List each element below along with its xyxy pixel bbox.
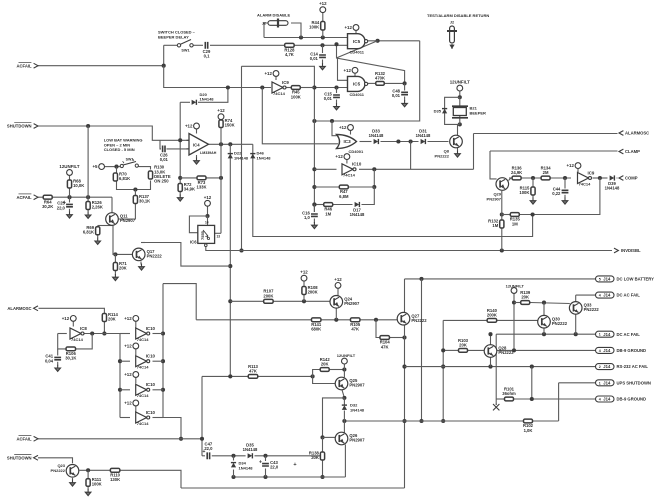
wire bank supply2 — [135, 349, 137, 355]
wire mid row 320 — [196, 319, 311, 321]
junction D33 node — [396, 139, 400, 143]
transistor Q11 — [106, 213, 136, 226]
wire Q30 collector — [543, 303, 545, 316]
junction J2 drop — [299, 35, 303, 39]
connector J14 pin4 DB-9 GROUND — [596, 347, 647, 353]
resistor R72 — [178, 182, 195, 192]
wire R134 to IC9b — [550, 177, 571, 179]
junction R44 bottom — [321, 35, 325, 39]
junction IC9 in branch — [260, 85, 264, 89]
wire IC10a supply — [346, 160, 348, 164]
wire Q11 emitter — [111, 197, 113, 213]
wire D32 column — [343, 398, 345, 405]
svg-text:CLOSED - 5 MIN: CLOSED - 5 MIN — [104, 147, 135, 152]
resistor R105 — [350, 318, 361, 332]
wire R114 column — [103, 322, 105, 334]
diode D31 — [416, 128, 431, 144]
capacitor C48 — [392, 89, 408, 99]
svg-text:36ohm: 36ohm — [502, 391, 516, 396]
svg-text:SW1: SW1 — [126, 158, 134, 162]
junction R101/x531 — [530, 397, 534, 401]
wire IC4 supply — [196, 129, 198, 134]
svg-text:74C14: 74C14 — [343, 173, 356, 178]
junction x421 bottom — [419, 419, 423, 423]
svg-text:SW1: SW1 — [181, 49, 189, 53]
svg-text:2M: 2M — [543, 170, 549, 175]
capacitor C44 — [552, 187, 568, 197]
wire row3 J14 — [496, 333, 595, 335]
resistor R104 — [380, 336, 391, 350]
svg-text:1M: 1M — [325, 211, 331, 216]
svg-text:74C14: 74C14 — [273, 91, 286, 96]
junction shutdown — [86, 124, 90, 128]
wire R68 column — [69, 176, 71, 197]
power +12 IC9a — [264, 71, 278, 77]
diode D33 — [369, 128, 384, 144]
svg-text:6,81K: 6,81K — [119, 176, 130, 181]
connector J14 pin4 DC AC FAIL — [596, 292, 641, 298]
wire R137 column — [134, 190, 136, 196]
wire bank supply1 — [135, 321, 137, 327]
junction IC6 vcc — [205, 214, 209, 218]
capacitor C25 — [57, 200, 73, 210]
wire IC4 fb column — [179, 102, 181, 183]
junction R113/ACFAIL — [200, 437, 204, 441]
wire R107 to Q24 base — [273, 300, 330, 302]
svg-text:1,0K: 1,0K — [524, 428, 533, 433]
resistor R128 — [284, 43, 295, 57]
wire bank left rail — [119, 334, 121, 418]
junction route/IC3 drop — [330, 119, 334, 123]
wire IC9b out to D39 — [593, 177, 608, 179]
junction rail row2 — [118, 359, 122, 363]
wire C25 to ground — [69, 209, 71, 212]
svg-text:1: 1 — [599, 333, 601, 337]
port CLAMP — [619, 149, 623, 154]
wire R104 branch — [376, 320, 380, 338]
wire D20 left — [180, 101, 190, 103]
junction R111 top — [86, 468, 90, 472]
wire C25 column — [69, 197, 71, 202]
wire Q29 collector — [501, 191, 503, 220]
junction C15 tap — [334, 85, 338, 89]
capacitor C16 — [302, 210, 318, 220]
power 12UNFILT Q25 — [342, 358, 348, 364]
svg-text:ALARM DISABLE: ALARM DISABLE — [257, 13, 290, 18]
svg-text:PN2907: PN2907 — [349, 438, 365, 443]
svg-text:12UNFILT: 12UNFILT — [337, 353, 356, 358]
inverter IC8 — [70, 326, 87, 342]
wire C44 to ground — [564, 195, 566, 198]
svg-text:22,0: 22,0 — [204, 446, 213, 451]
power 12UNFILT Q30 — [511, 288, 517, 294]
wire R132b column — [501, 228, 503, 251]
junction C43 top — [263, 454, 267, 458]
resistor R102 — [523, 419, 534, 433]
junction R103 left — [441, 348, 445, 352]
junction rail row3 — [118, 388, 122, 392]
junction C44 top — [563, 176, 567, 180]
wire R101 to J14 row7 — [514, 398, 596, 400]
wire D34 column — [233, 456, 235, 461]
svg-text:+12: +12 — [124, 344, 132, 349]
svg-text:ACFAIL: ACFAIL — [16, 63, 32, 68]
wire bank in4 — [120, 417, 130, 419]
inverter IC10b4 — [136, 410, 156, 426]
svg-text:1,0: 1,0 — [304, 215, 310, 220]
diode D46 — [250, 154, 255, 159]
wire bank right rail — [162, 284, 164, 418]
wire ALARMOSC row right — [474, 133, 618, 135]
junction Q26 base — [320, 435, 324, 439]
port ACFAIL bottom — [16, 436, 38, 442]
wire R138 to bottom row — [322, 461, 324, 478]
wire alarm-disable row — [264, 37, 348, 39]
svg-text:DB-9 GROUND: DB-9 GROUND — [617, 348, 647, 353]
wire IC3 supply — [350, 130, 352, 134]
svg-text:IC8: IC8 — [80, 326, 87, 331]
wire bank top row — [163, 284, 196, 320]
ground R69 — [95, 238, 101, 245]
svg-text:100K: 100K — [519, 190, 529, 195]
junction R137 top — [133, 187, 137, 191]
wire D32 to row — [343, 411, 345, 422]
wire latch diag A — [338, 41, 378, 81]
svg-text:+12: +12 — [264, 71, 272, 76]
diode D17 — [350, 202, 365, 217]
wire row5 J14 — [405, 366, 596, 368]
svg-text:PN2222: PN2222 — [435, 153, 450, 158]
svg-text:J14: J14 — [603, 277, 611, 282]
wire R73 row — [180, 177, 221, 179]
wire IC6 top pin — [207, 216, 209, 225]
jumper J2 alarm disable — [262, 19, 288, 28]
svg-text:+12: +12 — [319, 1, 327, 6]
svg-text:1N4148: 1N4148 — [239, 465, 254, 470]
wire R70/R130 bottoms — [117, 181, 151, 190]
wire C29 to R128 — [210, 44, 285, 46]
wire bank out2 — [153, 360, 164, 362]
wire R104 to emitter — [390, 337, 405, 339]
svg-text:ALARMOSC: ALARMOSC — [625, 131, 649, 136]
power +12 IC9b — [566, 163, 580, 169]
wire bank supply3 — [135, 378, 137, 384]
wire C26 to IC4 — [167, 148, 190, 150]
resistor R107 — [263, 289, 274, 303]
svg-text:DB-9 GROUND: DB-9 GROUND — [617, 397, 647, 402]
wire J2 test pin — [451, 44, 453, 49]
junction Q33 emitter — [574, 332, 578, 336]
svg-text:74C14: 74C14 — [137, 337, 150, 342]
junction Q28 emitter — [488, 365, 492, 369]
svg-text:1N4148: 1N4148 — [416, 133, 431, 138]
wire gate2 in2 row — [314, 87, 347, 89]
svg-text:CLAMP: CLAMP — [625, 149, 640, 154]
resistor R126 — [86, 200, 103, 210]
timer IC6 — [190, 221, 220, 247]
ground Q17 — [139, 264, 145, 271]
wire D20 right — [198, 88, 228, 103]
wire C44 column — [564, 178, 566, 189]
resistor R139 — [520, 290, 531, 305]
junction IC10a out — [372, 167, 376, 171]
transistor Q25 — [335, 377, 365, 390]
capacitor C14 — [310, 51, 326, 61]
svg-text:150K: 150K — [225, 123, 235, 128]
power +12 Q24 — [334, 277, 342, 288]
power 12UNFILT beeper — [450, 80, 470, 91]
diode D39 — [605, 175, 620, 190]
wire IC9b supply — [577, 169, 579, 173]
junction IC9 out row — [312, 85, 316, 89]
wire SHUTDOWN row — [38, 126, 189, 140]
capacitor C47 — [203, 442, 214, 460]
svg-text:ACFAIL: ACFAIL — [16, 195, 32, 200]
power +12 IC3 — [339, 125, 353, 131]
svg-text:680K: 680K — [311, 327, 321, 332]
junction R46 left — [312, 202, 316, 206]
wire R107 row — [230, 300, 263, 302]
junction fb/in1 — [178, 138, 182, 142]
svg-text:0,01: 0,01 — [324, 96, 333, 101]
svg-text:1M: 1M — [492, 223, 498, 228]
wire R71 column — [114, 254, 116, 262]
wire Q24 collector — [335, 308, 337, 320]
svg-text:100K: 100K — [309, 25, 319, 30]
resistor R137 — [133, 194, 150, 204]
svg-text:20K: 20K — [459, 342, 467, 347]
transistor Q17 — [132, 248, 162, 261]
svg-text:74C14: 74C14 — [137, 393, 150, 398]
svg-text:12UNFILT: 12UNFILT — [59, 164, 79, 169]
wire R128 to NAND input — [294, 44, 347, 46]
connector J14 pin5 DC LOW BATTERY — [596, 276, 655, 282]
wire x421 column — [421, 279, 423, 421]
svg-text:+12: +12 — [566, 163, 574, 168]
ground Q8 — [455, 151, 461, 158]
connector J14 pin1 DC AC FAIL — [596, 331, 641, 337]
junction D32 bottom — [342, 419, 346, 423]
junction R108 bottom — [302, 299, 306, 303]
diode D35 — [442, 109, 447, 114]
resistor R70 — [113, 171, 130, 181]
wire IC10a out row — [359, 168, 474, 170]
port INVDISBL — [614, 248, 619, 253]
wire C26 branch — [160, 140, 161, 149]
wire Q17 emitter — [140, 262, 142, 265]
svg-text:PN2907: PN2907 — [120, 218, 136, 223]
wire C43 column — [265, 456, 267, 461]
svg-text:IC10: IC10 — [146, 382, 156, 387]
svg-text:J14: J14 — [603, 332, 611, 337]
wire bank in2 — [120, 360, 130, 362]
wire C16 column — [313, 205, 315, 213]
capacitor C15 — [324, 91, 340, 101]
wire 12UNFILT3 drop — [513, 294, 515, 351]
wire Q23 emitter — [72, 478, 74, 480]
junction gate1 in2 — [334, 42, 338, 46]
svg-text:IC6: IC6 — [190, 240, 197, 245]
svg-text:1N4148: 1N4148 — [234, 155, 249, 160]
wire bank supply4 — [135, 406, 137, 412]
capacitor C26 — [160, 146, 169, 163]
svg-text:IC10: IC10 — [352, 162, 362, 167]
junction x443/R102 — [441, 419, 445, 423]
svg-text:0,01: 0,01 — [160, 157, 169, 162]
svg-text:IC3: IC3 — [344, 139, 352, 144]
wire R115 to ground — [532, 196, 534, 199]
port ALARMOSC left — [7, 306, 38, 311]
svg-text:1M: 1M — [512, 221, 518, 226]
svg-text:PN2222: PN2222 — [498, 350, 514, 355]
svg-text:+: + — [293, 462, 296, 468]
svg-text:1N4148: 1N4148 — [243, 447, 258, 452]
svg-text:J14: J14 — [603, 397, 611, 402]
wire 12UNFILT4 drop — [343, 364, 345, 369]
wire D31 to Q8 base — [428, 141, 449, 143]
wire loop left edge — [241, 66, 243, 250]
wire R115 column — [532, 178, 534, 187]
wire IC4 to ground — [196, 155, 198, 158]
wire ACFAIL to beeper-delay switch — [38, 45, 164, 65]
junction R70 top — [114, 165, 118, 169]
svg-text:IC5: IC5 — [353, 39, 361, 44]
wire IC8 supply — [72, 321, 74, 326]
transistor Q27 — [397, 312, 427, 325]
nand gate IC5a — [348, 34, 368, 55]
wire Q25 base — [313, 376, 336, 383]
resistor R141 — [311, 318, 322, 332]
wire Q26 collector — [344, 445, 346, 478]
svg-text:PN2222: PN2222 — [411, 318, 427, 323]
wire gate2 supply — [354, 73, 356, 76]
resistor R69 — [83, 225, 100, 235]
wire C48 column — [404, 83, 406, 90]
svg-text:22,0: 22,0 — [57, 205, 66, 210]
power +5 — [92, 164, 104, 170]
power +12 IC10b2 — [124, 343, 138, 349]
transistor Q24 — [330, 296, 360, 309]
connector J14 pin4 DB-9 GROUND b — [596, 396, 647, 402]
svg-text:+12: +12 — [334, 277, 342, 282]
junction D31 left — [409, 139, 413, 143]
wire R108 column — [303, 281, 305, 286]
wire R44 column — [322, 13, 324, 38]
svg-text:6,8M: 6,8M — [339, 194, 349, 199]
junction R135 corner — [531, 212, 535, 216]
wire bank out1 — [153, 333, 164, 335]
svg-text:CD4011: CD4011 — [350, 49, 365, 54]
wire Q17 collector route — [145, 243, 230, 267]
wire Q23 base row — [80, 469, 111, 471]
junction D34 top — [231, 454, 235, 458]
port COMP — [619, 176, 623, 181]
wire comp feedback — [519, 178, 600, 215]
wire Q28 emitter — [490, 357, 492, 367]
svg-text:30,2K: 30,2K — [42, 204, 53, 209]
junction R72 top — [178, 176, 182, 180]
wire x558 column — [558, 383, 560, 421]
wire bank out3 — [153, 389, 164, 391]
wire IC6 right pin — [215, 232, 221, 234]
wire D17 to corner — [362, 187, 375, 205]
svg-text:4: 4 — [599, 294, 601, 298]
svg-text:IC9: IC9 — [588, 170, 595, 175]
wire D39 to COMP — [617, 177, 618, 179]
svg-text:74C14: 74C14 — [579, 181, 592, 186]
resistor R111 — [86, 477, 102, 487]
junction R74 bottom — [219, 142, 223, 146]
diode D32 — [342, 405, 347, 410]
wire C41 column — [57, 349, 59, 356]
wire Q28 to J14 row4 — [497, 349, 596, 351]
svg-text:DC AC FAIL: DC AC FAIL — [617, 293, 641, 298]
port ACFAIL top — [16, 62, 38, 68]
svg-text:TEST/ALARM DISABLE RETURN: TEST/ALARM DISABLE RETURN — [427, 13, 489, 18]
wire row1 J14 — [405, 278, 596, 280]
svg-text:22,0: 22,0 — [270, 465, 279, 470]
wire R142 to 12UNFILT — [330, 369, 345, 371]
wire R139 row — [514, 302, 521, 304]
wire beeper column — [459, 97, 461, 124]
resistor R46 — [324, 203, 333, 217]
junction rail out1 — [161, 331, 165, 335]
svg-text:ON 250: ON 250 — [154, 179, 169, 184]
svg-text:IC5: IC5 — [353, 82, 361, 87]
svg-text:ACFAIL: ACFAIL — [16, 436, 32, 441]
wire R102 row — [344, 420, 523, 422]
wire IC8 in stub — [58, 333, 67, 335]
svg-text:PN2222: PN2222 — [584, 307, 600, 312]
svg-text:SHUTDOWN: SHUTDOWN — [7, 124, 32, 129]
wire bank in1 — [120, 333, 130, 335]
op-amp IC4 LM339 — [187, 134, 217, 156]
svg-text:IC4: IC4 — [193, 143, 200, 148]
junction loop/IC6 row — [239, 248, 243, 252]
wire IC8 out row — [85, 333, 121, 335]
svg-text:J14: J14 — [603, 293, 611, 298]
resistor R142 — [320, 357, 331, 372]
svg-text:PN2907: PN2907 — [487, 196, 502, 201]
wire C47 to D35 — [212, 455, 246, 457]
ground Q23 — [70, 480, 76, 487]
svg-text:0,1: 0,1 — [204, 54, 210, 59]
wire CLAMP to Q29 base — [490, 151, 497, 179]
junction D34 bottom — [231, 475, 235, 479]
wire bank in3 — [120, 389, 130, 391]
junction Q25 emitter — [342, 367, 346, 371]
svg-text:13: 13 — [217, 235, 221, 239]
resistor R73 — [196, 176, 206, 190]
resistor R134 — [541, 165, 552, 180]
svg-text:74C14: 74C14 — [71, 337, 84, 342]
svg-text:20K: 20K — [119, 265, 127, 270]
svg-text:130K: 130K — [110, 477, 120, 482]
wire R74 column — [220, 120, 222, 145]
svg-text:1N4148: 1N4148 — [257, 155, 272, 160]
junction C25 top — [67, 195, 71, 199]
power +12 IC10b1 — [124, 316, 138, 322]
wire fb R106 right — [76, 334, 93, 349]
wire R108 col b — [303, 295, 305, 302]
junction D20/ACFAIL row — [226, 85, 230, 89]
wire R72 to ground — [179, 192, 181, 196]
power +12 IC4 — [185, 123, 199, 129]
wire ALARMOSC riser — [473, 134, 475, 170]
wire ACFAIL row bottom — [38, 438, 202, 440]
svg-text:0,22: 0,22 — [552, 191, 561, 196]
svg-text:IC9: IC9 — [282, 80, 289, 85]
